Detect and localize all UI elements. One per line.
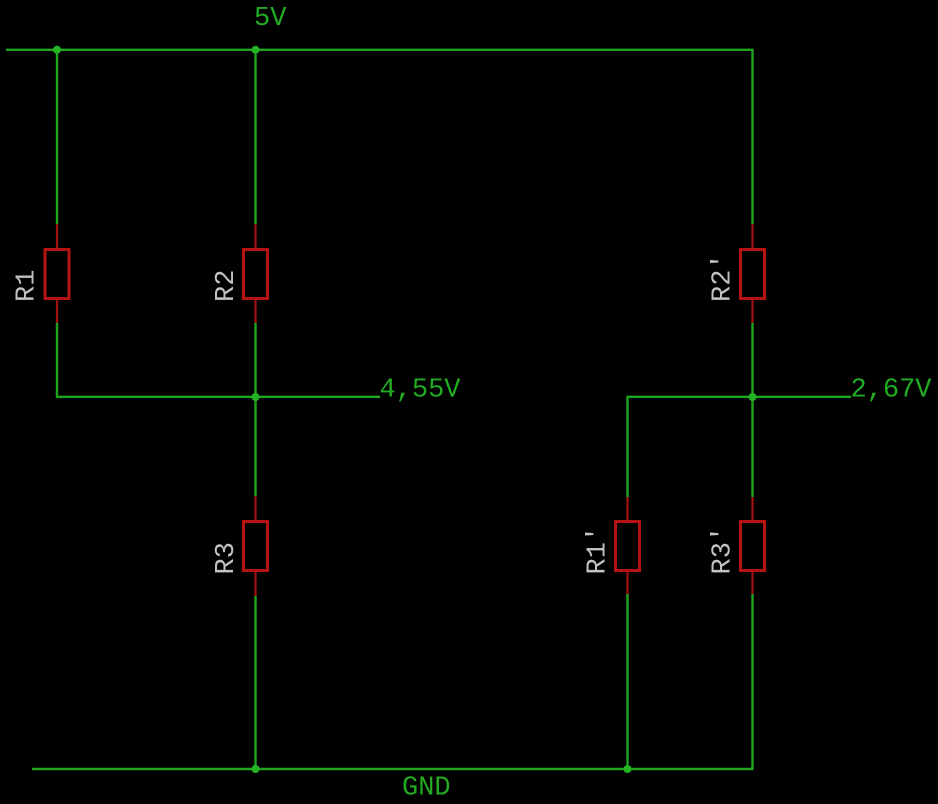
junction 5V at R2 — [252, 46, 260, 54]
wire node 2,67V to R1' — [628, 397, 852, 497]
svg-text:R1: R1 — [13, 270, 43, 302]
resistor R1 — [45, 224, 69, 323]
wire 5V drop to R2' — [751, 50, 753, 224]
junction 5V at R1 — [53, 46, 61, 54]
wire R2' to node 2,67V — [751, 323, 753, 497]
wire R2 to node 4,55V — [254, 323, 256, 496]
junction GND at R1' — [624, 765, 632, 773]
svg-text:R3': R3' — [709, 526, 739, 575]
wire R1' to GND rail — [626, 594, 628, 769]
wire R1 to node 4,55V — [57, 323, 380, 397]
svg-text:R3: R3 — [212, 542, 242, 574]
wire 5V drop to R1 — [56, 50, 58, 224]
svg-text:R2: R2 — [212, 270, 242, 302]
junction node 4,55V — [252, 393, 260, 401]
resistor R2' — [741, 224, 765, 323]
wire R3 to GND rail — [254, 596, 256, 769]
svg-text:R1': R1' — [584, 526, 614, 575]
svg-text:2,67V: 2,67V — [851, 376, 933, 406]
resistor R3 — [244, 496, 268, 596]
svg-text:R2': R2' — [709, 253, 739, 302]
svg-text:5V: 5V — [254, 4, 287, 34]
junction GND at R3 — [252, 765, 260, 773]
svg-text:GND: GND — [402, 774, 451, 804]
junction node 2,67V — [749, 393, 757, 401]
wire GND bottom rail — [32, 768, 754, 770]
wire 5V top rail — [6, 49, 754, 51]
resistor R1' — [616, 497, 640, 594]
wire R3' to GND rail — [751, 594, 753, 769]
svg-text:4,55V: 4,55V — [380, 376, 462, 406]
wire 5V drop to R2 — [254, 50, 256, 224]
resistor R3' — [741, 497, 765, 594]
resistor R2 — [244, 224, 268, 323]
